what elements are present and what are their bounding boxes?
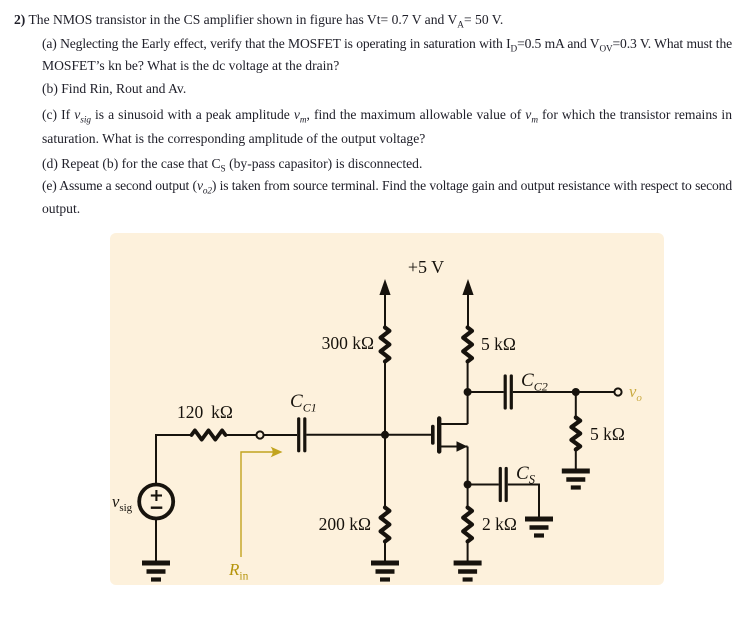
wire CS to corner and ground: [508, 484, 539, 486]
resistor RG2 200k: [381, 508, 390, 542]
wire RL to ground: [575, 450, 577, 472]
node gate junction: [381, 431, 389, 439]
resistor RG1 300k: [381, 328, 390, 362]
wire CC1 to gate: [306, 434, 431, 436]
svg-text:300 kΩ: 300 kΩ: [322, 333, 374, 353]
wire output node to RL: [575, 392, 577, 418]
resistor RD 5k: [463, 328, 472, 362]
node vo open terminal: [614, 388, 621, 395]
svg-text:200 kΩ: 200 kΩ: [319, 514, 371, 534]
wire RS to ground: [467, 542, 469, 564]
wire 200k to ground: [384, 542, 386, 564]
capacitor CC1: [299, 419, 305, 451]
node input open terminal: [256, 431, 263, 438]
wire drain node to CC2: [468, 391, 504, 393]
ground (200k): [371, 563, 399, 580]
wire source corner down: [467, 447, 469, 508]
ground (load): [562, 471, 590, 488]
transistor Q1 NMOS: [433, 419, 468, 452]
resistor RL 5k: [571, 418, 580, 450]
wire terminal to CC1: [264, 434, 297, 436]
svg-text:+5 V: +5 V: [408, 257, 444, 277]
wire gate node down to 200k: [384, 435, 386, 508]
svg-text:5 kΩ: 5 kΩ: [481, 334, 516, 354]
VDD +5V supply arrow (left): [379, 279, 390, 328]
source vsig (circle with plus/minus): [139, 485, 173, 519]
Rin marker arrow (yellow): [241, 447, 283, 557]
wire source node to CS: [468, 484, 499, 486]
wire CC2 to output terminal: [513, 391, 615, 393]
wire vsig top up and corner: [155, 435, 157, 484]
svg-text:2 kΩ: 2 kΩ: [482, 514, 517, 534]
node drain junction: [464, 388, 472, 396]
capacitor CS: [500, 469, 506, 501]
node output junction: [572, 388, 580, 396]
node source junction: [464, 481, 472, 489]
capacitor CC2: [505, 376, 511, 408]
wire RD bottom to drain corner: [467, 362, 469, 425]
ground (CS): [525, 519, 553, 536]
svg-text:120 kΩ: 120 kΩ: [177, 402, 233, 422]
wire 120k to input terminal: [226, 434, 257, 436]
svg-text:5 kΩ: 5 kΩ: [590, 424, 625, 444]
VDD +5V supply arrow (right): [462, 279, 473, 328]
resistor RS 2k: [463, 508, 472, 542]
wire 300k to gate node: [384, 362, 386, 436]
wire vsig bottom to ground: [155, 519, 157, 563]
resistor Rsig 120k: [192, 430, 226, 439]
ground (vsig): [142, 563, 170, 580]
ground (2k): [454, 563, 482, 580]
